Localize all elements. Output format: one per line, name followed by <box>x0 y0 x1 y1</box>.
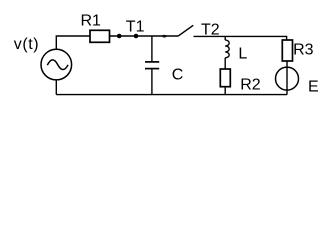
svg-text:E: E <box>308 79 319 96</box>
wire switch to right corner <box>194 36 287 39</box>
svg-text:R1: R1 <box>81 12 102 29</box>
label R3 <box>293 42 314 59</box>
wire bottom <box>56 94 287 96</box>
resistor R2 <box>220 69 230 87</box>
node T1 dot 2 <box>134 34 139 39</box>
svg-text:T2: T2 <box>201 21 220 38</box>
wire R1 to switch <box>110 35 179 37</box>
svg-text:R3: R3 <box>293 42 314 59</box>
svg-text:R2: R2 <box>240 76 261 93</box>
source E <box>276 61 299 95</box>
wire source bottom stub <box>55 80 57 95</box>
svg-text:T1: T1 <box>126 18 145 35</box>
inductor L <box>225 36 229 68</box>
label E <box>308 79 319 96</box>
label L <box>238 45 247 62</box>
label T2 <box>201 21 220 38</box>
wire R2 to bottom <box>224 87 226 95</box>
svg-text:v(t): v(t) <box>14 36 39 53</box>
capacitor C <box>145 36 159 95</box>
label T1 <box>126 18 145 35</box>
node T1 dot 1 <box>117 34 122 39</box>
label R2 <box>240 76 261 93</box>
label C <box>172 67 184 84</box>
label v(t) <box>14 36 39 53</box>
svg-text:L: L <box>238 45 247 62</box>
resistor R1 <box>90 30 110 42</box>
voltage source v(t) <box>41 49 72 80</box>
wire top from source to R1 <box>56 36 89 49</box>
svg-text:C: C <box>172 67 184 84</box>
label R1 <box>81 12 102 29</box>
resistor R3 <box>282 40 292 61</box>
switch blade (open) <box>178 25 193 36</box>
switch contact dot <box>162 35 166 38</box>
